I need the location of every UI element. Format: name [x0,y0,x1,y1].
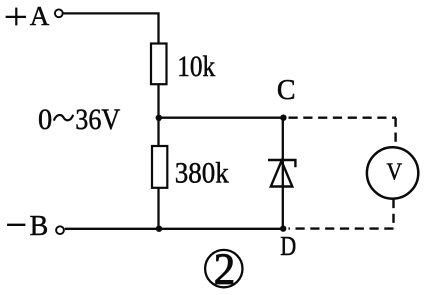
svg-text:36V: 36V [75,103,120,136]
wire from R2 to bottom bus [157,188,159,229]
svg-text:0: 0 [38,103,52,136]
svg-text:B: B [30,211,49,242]
wire from R1 to R2 [157,84,159,146]
terminal B [56,226,64,234]
svg-text:10k: 10k [177,50,215,83]
svg-text:380k: 380k [175,156,229,189]
zener diode triangle [271,161,293,187]
bottom wire from terminal B to D [65,228,283,230]
junction node on left bus [156,115,162,121]
terminal -B minus sign [7,224,25,226]
resistor R2 380k [152,146,167,188]
zener diode cathode bar [268,160,295,167]
svg-text:A: A [30,1,50,31]
svg-text:D: D [280,231,296,261]
junction node bottom of left bus [156,226,162,232]
svg-text:C: C [277,75,296,106]
figure number circle [205,250,242,287]
terminal +A plus sign [6,8,26,26]
wire from terminal A right and down to R1 [64,13,159,43]
dashed wire C to voltmeter (top horizontal) [289,116,397,118]
wire from C through zener to D [282,118,284,229]
dashed wire bottom back to D [289,227,394,229]
voltmeter U1 circle [367,147,418,198]
resistor R1 10k [151,44,167,85]
node C [280,115,286,121]
node D [280,225,286,231]
svg-text:V: V [387,159,403,185]
label 0~36V [38,103,121,136]
svg-text:2: 2 [214,244,236,293]
dashed wire from voltmeter bottom [392,199,394,229]
wire from node to C [159,116,284,118]
terminal A [55,9,63,17]
dashed wire down to voltmeter top [394,118,396,148]
